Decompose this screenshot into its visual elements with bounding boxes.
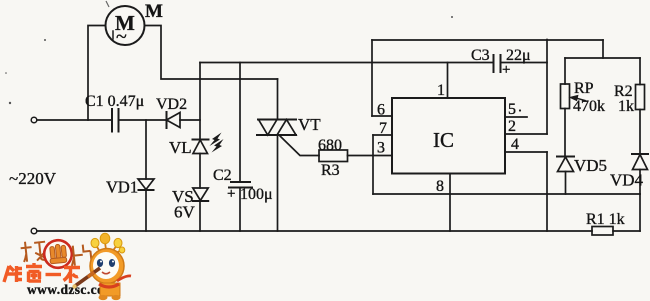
svg-text:~220V: ~220V	[9, 169, 57, 188]
svg-text:~: ~	[116, 26, 127, 48]
svg-text:4: 4	[511, 136, 519, 153]
svg-text:3: 3	[377, 140, 385, 157]
wire RP/R2 top link	[565, 57, 640, 59]
capacitor C3	[494, 55, 501, 72]
wire pins 7/3 down riser	[372, 135, 374, 194]
capacitor C2	[229, 63, 252, 232]
svg-text:6: 6	[377, 102, 385, 119]
watermark seal: magnifier ring with chip	[43, 239, 73, 269]
svg-text:2: 2	[508, 118, 516, 135]
svg-text:VT: VT	[298, 115, 321, 134]
diode VD1	[138, 120, 154, 231]
svg-text:C3: C3	[471, 47, 490, 64]
wire C3 to pin2 riser	[501, 62, 548, 64]
resistor R2	[636, 58, 645, 154]
pin 4 stub	[505, 151, 547, 153]
potentiometer RP	[561, 58, 586, 157]
motor M	[106, 6, 145, 45]
pin 1 riser	[447, 63, 449, 99]
svg-text:1k: 1k	[618, 98, 634, 115]
wire motor left to mains rail	[88, 26, 106, 121]
svg-text:+: +	[502, 62, 510, 78]
svg-text:VD1: VD1	[106, 178, 138, 197]
svg-text:7: 7	[379, 120, 387, 137]
wire VD2 to VL net	[180, 119, 200, 121]
watermark mascot	[72, 233, 131, 300]
svg-text:680: 680	[318, 137, 342, 154]
svg-text:470k: 470k	[573, 98, 605, 115]
svg-text:5: 5	[508, 101, 516, 118]
triac VT	[257, 120, 296, 136]
zener VS	[193, 188, 208, 231]
resistor R1	[592, 227, 613, 236]
wire top supply line	[372, 39, 603, 41]
wire VT bottom to ground rail	[277, 135, 279, 231]
wire pin2 riser to top line and C3	[546, 40, 548, 135]
diode VD5	[557, 157, 574, 195]
terminal T2 (left lower)	[31, 228, 37, 234]
wire C3 net (VL top, C2 top, pin1)	[200, 62, 494, 64]
wire VT gate to R3	[280, 136, 319, 156]
svg-text:M: M	[145, 1, 163, 22]
wire ground rail	[37, 230, 592, 232]
wire T1 to C1	[37, 119, 112, 121]
pin 6 stub	[372, 115, 392, 117]
pin 5 stub	[505, 116, 527, 118]
svg-text:6V: 6V	[174, 203, 196, 222]
svg-text:VD4: VD4	[610, 171, 644, 190]
scan specks	[5, 1, 453, 104]
terminal T1 (left upper, ~220V input)	[31, 117, 37, 123]
svg-text:R3: R3	[321, 162, 340, 179]
wire R3 to pin3	[348, 155, 393, 157]
svg-text:VL: VL	[169, 138, 192, 157]
svg-text:8: 8	[436, 178, 444, 195]
svg-text:VD2: VD2	[156, 96, 187, 113]
svg-text:RP: RP	[574, 80, 594, 97]
svg-text:1: 1	[437, 82, 445, 99]
resistor R3	[319, 150, 348, 162]
wire C1 to VD2 (junction with VD1 at x=146)	[119, 119, 167, 121]
svg-text:IC: IC	[433, 128, 454, 152]
pin 8 riser to ground rail	[449, 174, 451, 232]
wire VD4 drop to R1	[639, 194, 641, 231]
svg-text:R1 1k: R1 1k	[586, 211, 625, 228]
svg-text:C1 0.47μ: C1 0.47μ	[85, 93, 144, 110]
wire VT top riser	[277, 79, 279, 120]
wire pin6 riser	[371, 40, 373, 116]
svg-text:+: +	[227, 186, 235, 202]
watermark red text 维库一下 (drawn strokes)	[4, 263, 80, 283]
op-amp IC U1 body	[392, 98, 505, 174]
watermark seal: outlined 片 glyph	[70, 244, 92, 269]
svg-text:VD5: VD5	[574, 156, 607, 175]
pin 2 stub	[505, 133, 547, 135]
wire motor right down and across to VT	[145, 26, 278, 80]
watermark seal: outlined 找 glyph	[20, 240, 47, 263]
photodiode VL	[193, 63, 224, 189]
diode VD4	[632, 154, 648, 194]
wire pin4 drop to ground rail	[546, 152, 548, 231]
wire supply drop to RP/R2	[602, 40, 604, 58]
capacitor C1	[112, 109, 119, 132]
svg-text:C2: C2	[213, 167, 232, 184]
svg-text:100μ: 100μ	[240, 186, 273, 203]
wire node line y194	[373, 193, 640, 195]
diode VD2	[167, 112, 181, 128]
pin 7 stub	[373, 134, 392, 136]
wire R1 right link	[613, 230, 640, 232]
